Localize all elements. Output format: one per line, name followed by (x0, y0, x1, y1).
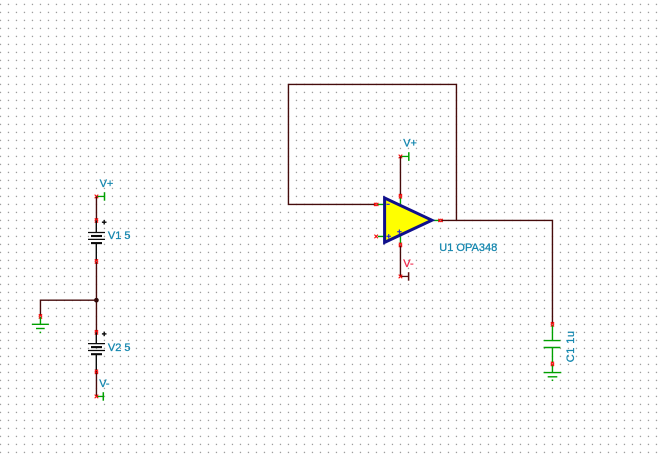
op-amp U1 (OPA348, yellow triangle) (378, 196, 439, 244)
svg-text:V-: V- (99, 378, 110, 390)
node: non-inverting input (x) (374, 235, 378, 239)
node: ground pin (double x) (39, 314, 42, 318)
node: output (double x, horizontal) (438, 219, 442, 222)
wire: V2 negative pin to V- jumper (95, 373, 97, 397)
svg-text:V1 5: V1 5 (108, 230, 131, 242)
wire: V1 negative pin through junction down to V2 positive pin (95, 262, 97, 332)
wire: feedback loop (output to inverting input) (288, 84, 456, 220)
node: C1 bottom pin (double x) (551, 362, 554, 366)
power jumper V+ (above op-amp) (399, 152, 409, 161)
wire: op-amp V- pin to V- jumper (399, 246, 401, 277)
wire: V+ jumper to V1 positive pin (95, 196, 97, 219)
ground symbol (below C1) (544, 365, 562, 381)
node: V2 negative pin (double x) (95, 370, 98, 374)
node: op-amp V- pin (double x) (399, 243, 402, 247)
node: inverting input (double x, horizontal) (374, 203, 378, 206)
node: V1 positive pin (double x) (95, 218, 98, 222)
wire: output to C1 (442, 220, 553, 323)
ground symbol (left) (32, 317, 49, 333)
wire: V+ jumper to op-amp V+ pin (399, 156, 401, 195)
svg-text:C1 1u: C1 1u (565, 331, 577, 363)
svg-text:V+: V+ (403, 138, 417, 150)
svg-text:V2 5: V2 5 (108, 342, 131, 354)
node: V2 positive pin (double x) (95, 330, 98, 334)
svg-text:U1 OPA348: U1 OPA348 (439, 242, 497, 254)
svg-text:V-: V- (403, 258, 414, 270)
capacitor C1 (1u) (544, 326, 561, 363)
battery V2 (5 V) (88, 332, 107, 373)
node: V1 negative pin (double x) (95, 259, 98, 263)
power jumper V- (left, below V2) (95, 392, 104, 401)
node: op-amp V+ pin (double x) (399, 194, 402, 198)
battery V1 (5 V) (88, 220, 107, 262)
junction dot (mid-supply node) (94, 298, 99, 303)
power jumper V+ (left, above V1) (95, 192, 105, 201)
wire: junction to ground (horizontal + drop) (40, 300, 96, 315)
svg-text:V+: V+ (100, 178, 114, 190)
power jumper V- (below op-amp, dark red) (399, 272, 409, 281)
node: C1 top pin (double x) (551, 322, 554, 326)
